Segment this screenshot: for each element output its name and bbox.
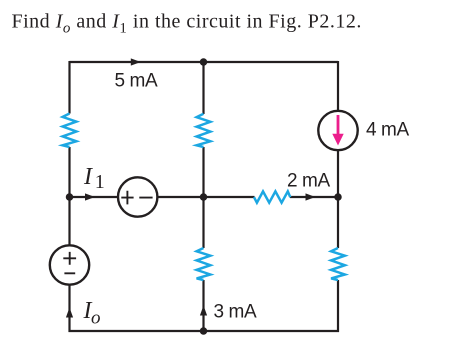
resistor middle lower (vertical) (197, 248, 211, 280)
current source 4mA circle (318, 111, 357, 150)
voltage source bottom-left (+/-) (50, 245, 89, 284)
node dot bottom middle (200, 327, 208, 335)
svg-text:5 mA: 5 mA (115, 71, 158, 92)
current source I1 (+ -) (118, 177, 157, 216)
wire left vertical middle (68, 147, 70, 245)
wire top horizontal (70, 61, 339, 63)
node dot top middle (200, 58, 208, 66)
svg-text:3 mA: 3 mA (214, 302, 257, 323)
wire middle vertical lower (202, 280, 204, 331)
wire bottom horizontal (69, 330, 340, 332)
wire right vertical upper (337, 61, 339, 111)
wire middle vertical center (202, 147, 204, 248)
svg-text:2 mA: 2 mA (287, 171, 330, 192)
resistor 2mA branch (horizontal) (254, 191, 290, 202)
arrowhead Io up left wire (66, 308, 73, 318)
wire middle horizontal center (158, 196, 255, 198)
wire left vertical upper (68, 61, 70, 114)
node dot right middle (334, 193, 342, 201)
wire right vertical lower (337, 280, 339, 332)
node dot center (200, 193, 208, 201)
wire right vertical middle (337, 150, 339, 248)
wire middle horizontal right (290, 196, 338, 198)
arrowhead 2mA branch (306, 193, 316, 200)
svg-text:4 mA: 4 mA (366, 120, 409, 141)
arrowhead I1 on middle wire (85, 193, 95, 200)
wire left vertical lower (68, 285, 70, 332)
resistor right lower (vertical) (331, 248, 345, 280)
wire middle horizontal left (70, 196, 118, 198)
arrowhead 3mA up middle wire (200, 306, 207, 316)
node dot left middle (66, 193, 74, 201)
resistor left (vertical) (63, 114, 77, 148)
svg-text:I: I (83, 164, 93, 190)
resistor middle upper (vertical) (197, 114, 211, 147)
arrowhead 5mA on top wire (131, 58, 141, 65)
magenta arrow inside 4mA source (332, 115, 343, 146)
svg-text:o: o (91, 308, 101, 329)
wire middle vertical upper (202, 62, 204, 114)
svg-text:1: 1 (95, 171, 105, 193)
